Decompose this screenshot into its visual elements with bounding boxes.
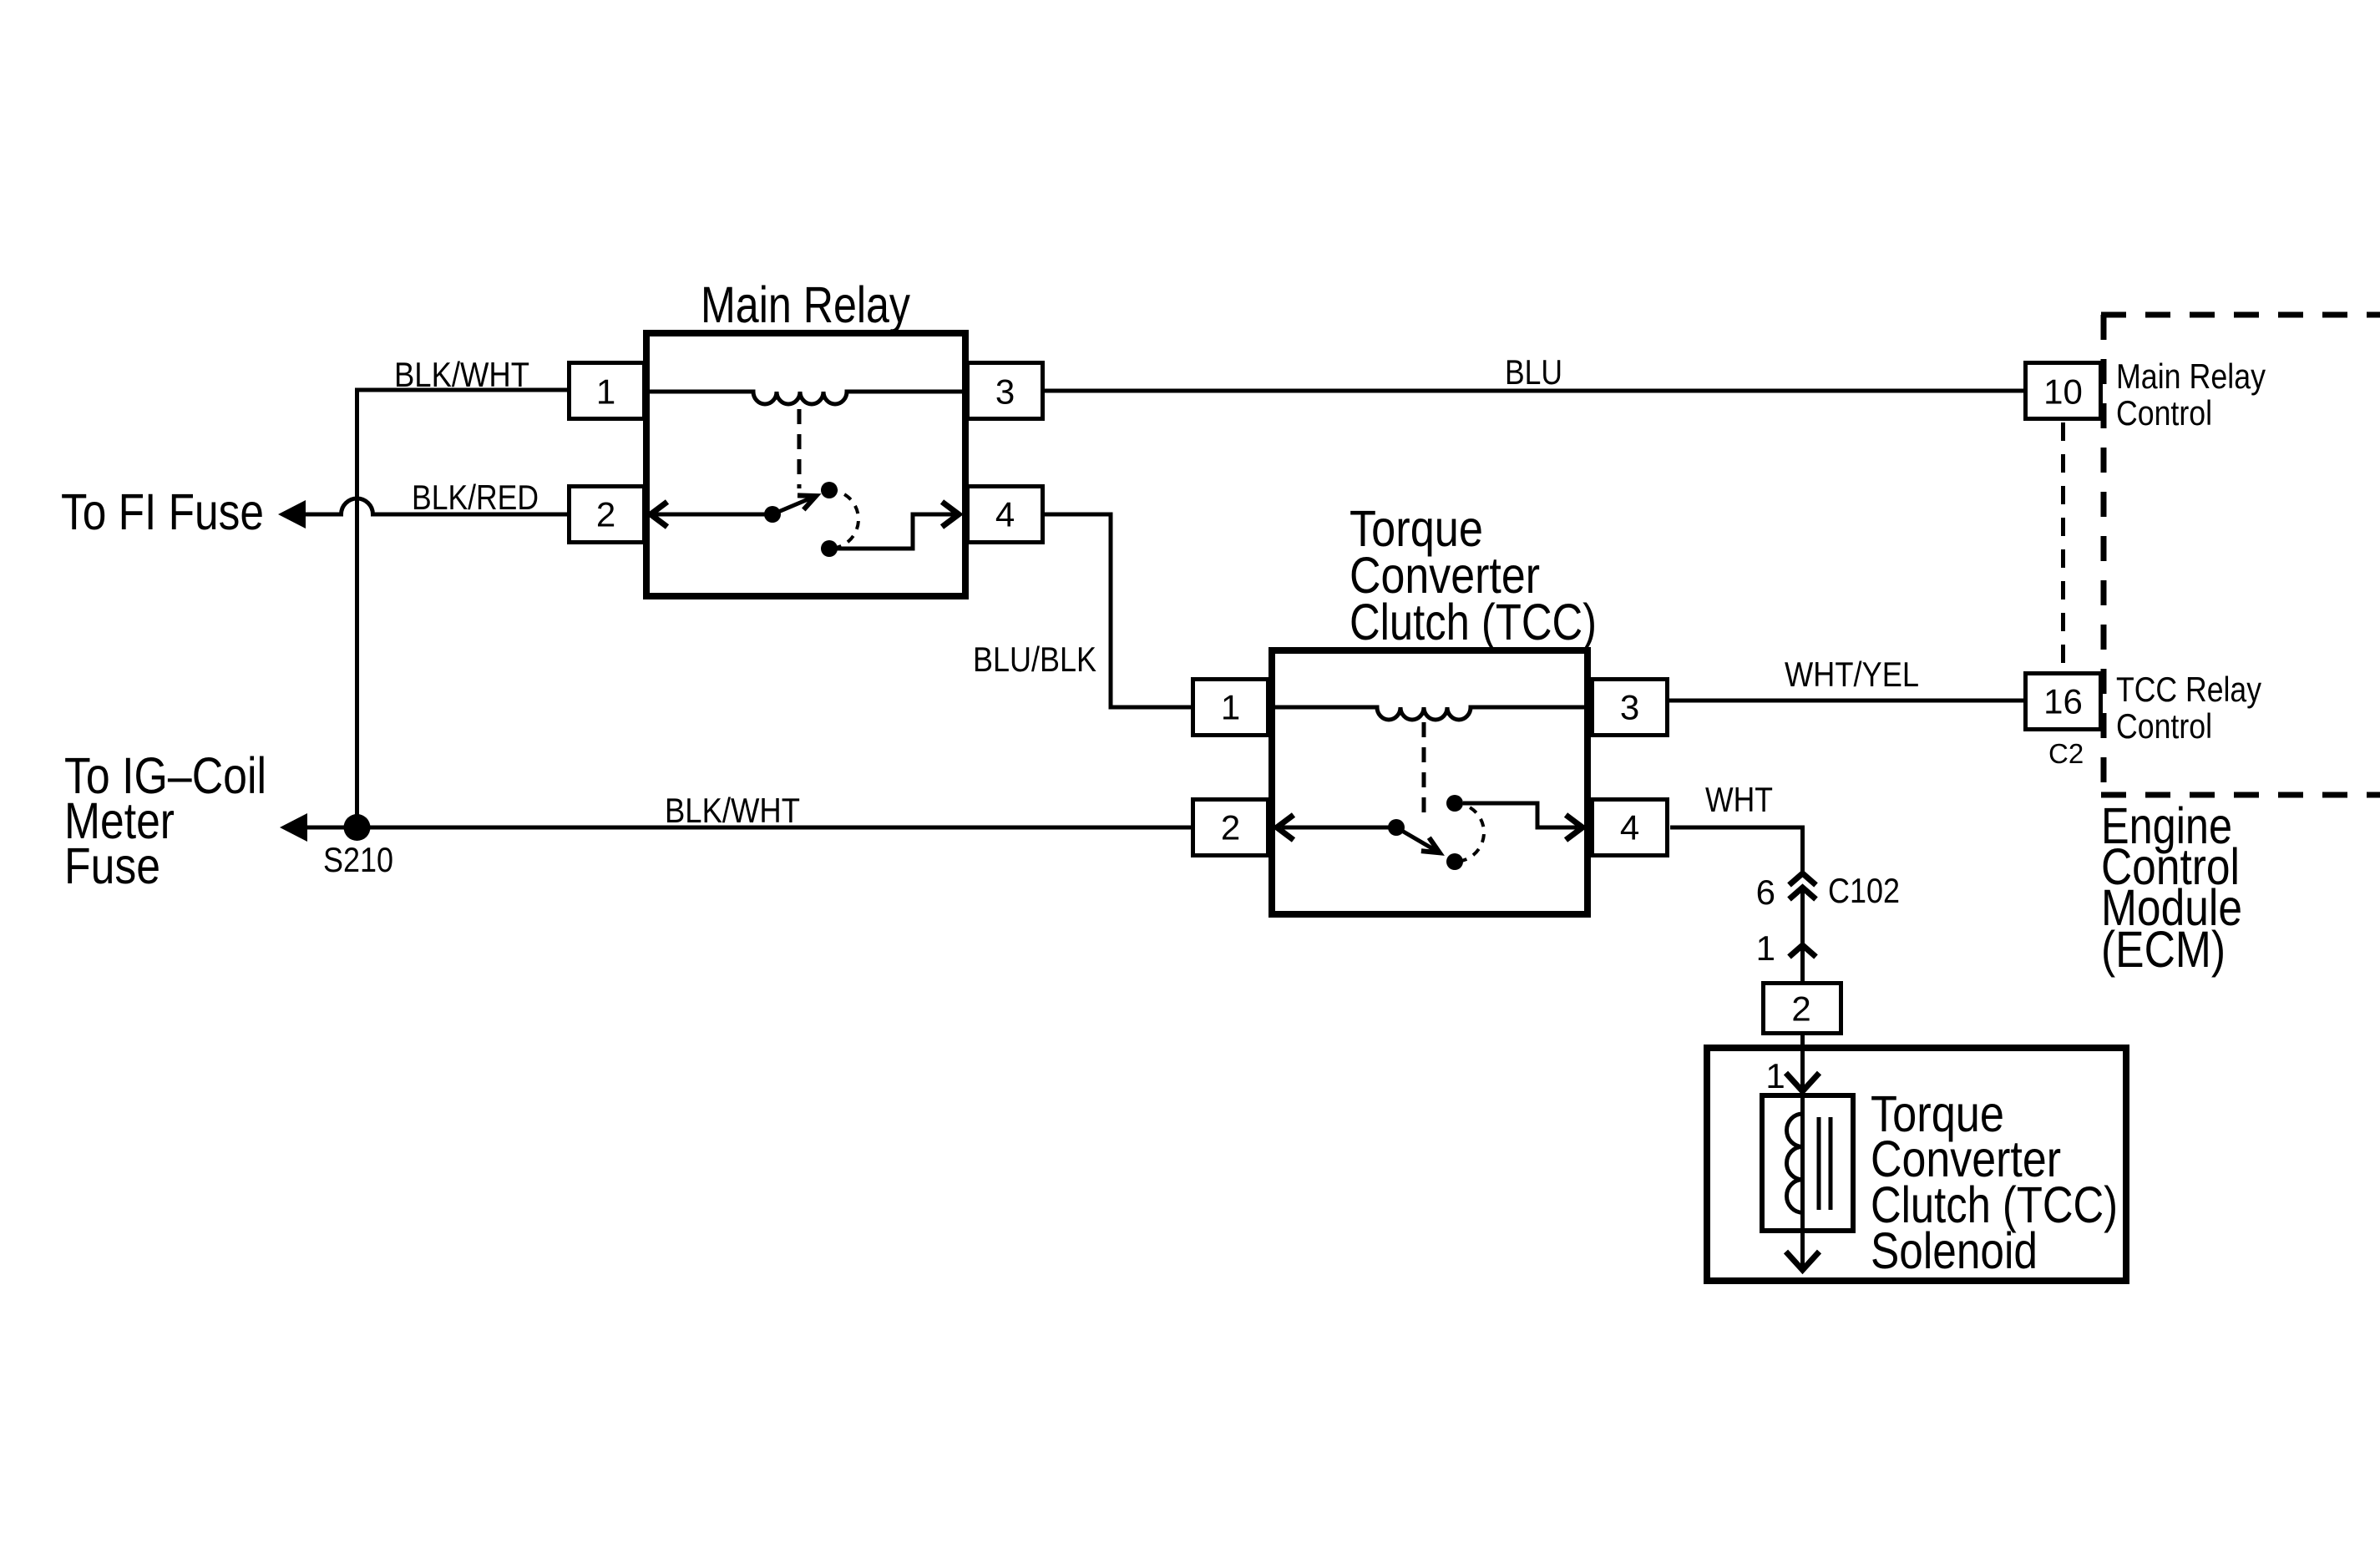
svg-text:2: 2 (596, 495, 615, 534)
svg-text:TCC Relay: TCC Relay (2116, 670, 2261, 709)
svg-text:Solenoid: Solenoid (1871, 1222, 2038, 1279)
wire: lead through solenoid coil box (1800, 1095, 1805, 1232)
solenoid coil box (inner) (1762, 1095, 1853, 1231)
arrow: open V at TCC relay pin 2 (pointing left) (1277, 815, 1294, 840)
wire: Main Relay coil line pin1 to pin3 with inductor bumps (648, 392, 964, 404)
wire: BLU from Main Relay pin 3 to ECM pin 10 (1044, 389, 2025, 393)
wire: segment between C102 connector halves down to pin-2 connector box (1800, 887, 1805, 983)
core: solenoid core bar 2 (1829, 1117, 1833, 1210)
dashed line: ECM internal link pin 10 to pin 16 (2061, 422, 2065, 670)
svg-text:(ECM): (ECM) (2101, 921, 2226, 978)
pin box: Main Relay pin 2 (570, 487, 645, 543)
node: S210 junction dot (344, 814, 371, 841)
svg-text:Clutch (TCC): Clutch (TCC) (1350, 594, 1597, 650)
svg-text:WHT/YEL: WHT/YEL (1785, 655, 1919, 694)
switch arm: TCC relay movable contact arm (points down-right) (1396, 827, 1440, 852)
svg-text:16: 16 (2043, 682, 2083, 721)
dashed arc: TCC relay contact travel (1455, 803, 1484, 862)
svg-text:1: 1 (1221, 688, 1240, 727)
svg-text:6: 6 (1756, 873, 1775, 912)
wire: Main Relay lower contact step to pin 4 with arrow (836, 514, 955, 549)
relay K2: Torque Converter Clutch (TCC) relay case (1272, 650, 1588, 914)
relay K1: Main Relay case (646, 333, 965, 596)
pin box: TCC relay pin 2 (1193, 800, 1268, 856)
svg-text:1: 1 (596, 372, 615, 412)
pin box: TCC relay pin 3 (1593, 680, 1668, 736)
svg-text:Control: Control (2116, 393, 2212, 432)
wire: BLK/WHT from riser corner to Main Relay pin 1 (355, 388, 569, 392)
svg-text:BLU/BLK: BLU/BLK (973, 640, 1096, 679)
svg-text:4: 4 (995, 495, 1015, 534)
contact dot: Main Relay common (on pin-2 line) (764, 506, 781, 523)
wire: BLK/WHT row from To-IG-Coil arrow through S210 to TCC relay pin 2 (302, 826, 1193, 830)
svg-text:Main Relay: Main Relay (701, 276, 910, 333)
pin box: TCC relay pin 1 (1193, 680, 1268, 736)
svg-text:3: 3 (1620, 688, 1639, 727)
dashed box: ECM boundary bottom edge (2101, 792, 2380, 798)
svg-text:C102: C102 (1828, 871, 1900, 910)
pin box: Main Relay pin 1 (570, 363, 645, 419)
coil: solenoid winding arcs (1787, 1114, 1803, 1212)
svg-text:2: 2 (1791, 989, 1810, 1029)
connector pin 1: single chevron (1790, 945, 1816, 957)
svg-text:WHT: WHT (1705, 780, 1773, 819)
pin box: ECM pin 10 (2026, 363, 2101, 419)
wire: vertical riser from BLK/WHT corner down to S210 node (355, 388, 359, 827)
svg-text:S210: S210 (323, 840, 393, 879)
svg-text:BLK/RED: BLK/RED (412, 478, 539, 517)
contact dot: TCC relay common (on pin-2 line) (1388, 819, 1405, 836)
dashed box: ECM boundary left edge (2101, 315, 2107, 795)
svg-text:10: 10 (2043, 372, 2083, 412)
arrow: open V at Main Relay pin 4 (pointing right) (942, 502, 959, 527)
dashed box: ECM boundary top edge (2101, 312, 2380, 318)
pin box: ECM pin 16 (2026, 674, 2101, 730)
wire: Main Relay internal pin2 line to common contact (652, 513, 772, 517)
wire: TCC relay upper contact step to pin 4 with arrow (1463, 803, 1577, 827)
wire: WHT/YEL from TCC relay pin 3 to ECM pin 16 (1637, 699, 2025, 703)
contact dot: Main Relay lower contact (821, 540, 838, 557)
arrow: open V at Main Relay pin 2 (pointing left) (651, 502, 667, 527)
wire: solenoid lead below coil box with down arrow (1800, 1233, 1805, 1268)
wire: BLU/BLK from Main Relay pin 4 down to TCC relay pin 1 (1044, 514, 1193, 707)
svg-text:To FI Fuse: To FI Fuse (61, 483, 264, 540)
svg-text:4: 4 (1620, 808, 1639, 847)
wire: TCC relay internal pin2 line to common contact (1282, 826, 1396, 830)
arrow: To FI Fuse (filled, pointing left) (278, 500, 306, 529)
svg-text:2: 2 (1221, 808, 1240, 847)
contact dot: Main Relay upper contact (821, 482, 838, 498)
wire: WHT from TCC relay pin 4 right then down to connector C102 (1670, 827, 1803, 872)
svg-text:3: 3 (995, 372, 1015, 412)
arrow: open V at TCC relay pin 4 (pointing right) (1566, 815, 1582, 840)
wire: TCC relay coil line pin1 to pin3 with inductor bumps (1274, 707, 1586, 720)
svg-text:Main Relay: Main Relay (2116, 357, 2266, 396)
svg-text:1: 1 (1765, 1056, 1785, 1095)
pin box: TCC relay pin 4 (1593, 800, 1668, 856)
contact dot: TCC relay lower contact (1446, 853, 1463, 870)
svg-text:C2: C2 (2048, 738, 2084, 769)
pin box: Main Relay pin 4 (968, 487, 1043, 543)
solenoid case: TCC Solenoid outer box (1707, 1048, 2126, 1281)
svg-text:BLK/WHT: BLK/WHT (394, 355, 529, 394)
wire: segment from pin-2 connector box to solenoid case (1800, 1034, 1805, 1046)
contact dot: TCC relay upper contact (1446, 795, 1463, 812)
svg-text:Fuse: Fuse (64, 837, 160, 894)
svg-text:BLU: BLU (1505, 352, 1562, 392)
wire: BLK/RED from Main Relay pin 2 to To-FI-Fuse arrow (hops over riser) (301, 498, 567, 514)
dashed arc: Main Relay contact travel (829, 490, 858, 549)
arrow: open V pointing down at solenoid coil box top (1786, 1073, 1820, 1091)
arrow: open V pointing down above solenoid case bottom (1786, 1252, 1820, 1270)
core: solenoid core bar 1 (1817, 1117, 1821, 1210)
pin box: Main Relay pin 3 (968, 363, 1043, 419)
connector C102 pin 6: double chevron (1790, 873, 1816, 885)
wire: solenoid internal lead with down arrow to coil box (1800, 1048, 1805, 1090)
arrow: To IG-Coil Meter Fuse (filled, pointing left) (280, 813, 307, 842)
switch arm: Main Relay movable contact arm (points up-right) (772, 496, 816, 514)
dashed line: TCC relay coil-to-switch actuation link (1422, 722, 1426, 822)
svg-text:BLK/WHT: BLK/WHT (665, 791, 800, 830)
svg-text:1: 1 (1756, 928, 1775, 968)
svg-text:Control: Control (2116, 706, 2212, 746)
pin box: solenoid connector pin 2 (1764, 984, 1841, 1034)
dashed line: Main Relay coil-to-switch actuation link (798, 409, 802, 488)
